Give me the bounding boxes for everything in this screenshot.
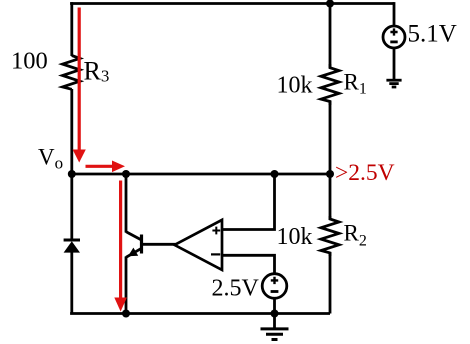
svg-text:R2: R2 <box>344 221 367 250</box>
junction bottom rail / ground stub <box>271 310 279 318</box>
op-amp U1 <box>175 220 223 270</box>
wire 5.1V source bottom lead <box>393 48 396 80</box>
svg-text:R3: R3 <box>84 57 110 86</box>
svg-text:10k: 10k <box>277 224 313 250</box>
current arrow at Vo node (red, horizontal) <box>86 161 126 173</box>
svg-text:100: 100 <box>11 47 48 74</box>
wire left rail between R3 and Vo node <box>70 89 73 174</box>
wire 5.1V source top lead <box>393 2 396 26</box>
voltage source V2 2.5V <box>262 274 287 299</box>
wire top rail <box>70 2 394 5</box>
wire R1 branch upper <box>329 4 332 69</box>
wire R1 branch lower to node <box>329 101 332 174</box>
svg-text:5.1V: 5.1V <box>408 21 457 48</box>
wire op-amp inverting input <box>222 254 275 274</box>
current arrow through transistor branch (red) <box>114 181 127 312</box>
wire left rail upper (top rail to R3) <box>70 2 73 56</box>
svg-text:>2.5V: >2.5V <box>335 160 395 186</box>
current arrow through R3 (red) <box>73 8 86 163</box>
wire R2 branch lower to bottom rail <box>329 252 332 314</box>
ground under 5.1V source <box>386 80 401 87</box>
junction top rail / R1 branch <box>326 0 334 8</box>
wire transistor emitter branch to bottom rail <box>125 257 128 314</box>
resistor R3 <box>63 56 80 90</box>
wire R2 branch upper <box>329 174 332 220</box>
wire op-amp noninverting input <box>222 174 275 231</box>
junction node >2.5V <box>326 170 334 178</box>
wire 2.5V source bottom lead <box>273 298 276 314</box>
svg-text:10k: 10k <box>277 73 313 99</box>
junction Vo node <box>68 170 76 178</box>
svg-text:R1: R1 <box>344 70 367 98</box>
wire op-amp output to base <box>142 243 176 246</box>
resistor R1 <box>321 64 339 105</box>
junction node line / transistor branch <box>122 170 130 178</box>
ground main <box>261 314 289 340</box>
transistor Q1 <box>126 232 142 258</box>
wire transistor collector branch <box>125 174 128 233</box>
wire left rail below diode to bottom rail <box>70 252 73 314</box>
wire node line (Vo to >2.5V node) <box>72 173 330 176</box>
junction bottom rail / emitter branch <box>122 310 130 318</box>
junction node line / + input riser <box>271 170 279 178</box>
svg-text:2.5V: 2.5V <box>212 276 260 302</box>
voltage source V1 5.1V <box>383 26 405 48</box>
wire left rail lower (Vo node down to diode) <box>70 174 73 240</box>
wire bottom rail <box>70 312 330 315</box>
resistor R2 <box>321 216 339 256</box>
diode D1 <box>64 240 80 253</box>
svg-text:Vo: Vo <box>38 145 63 173</box>
